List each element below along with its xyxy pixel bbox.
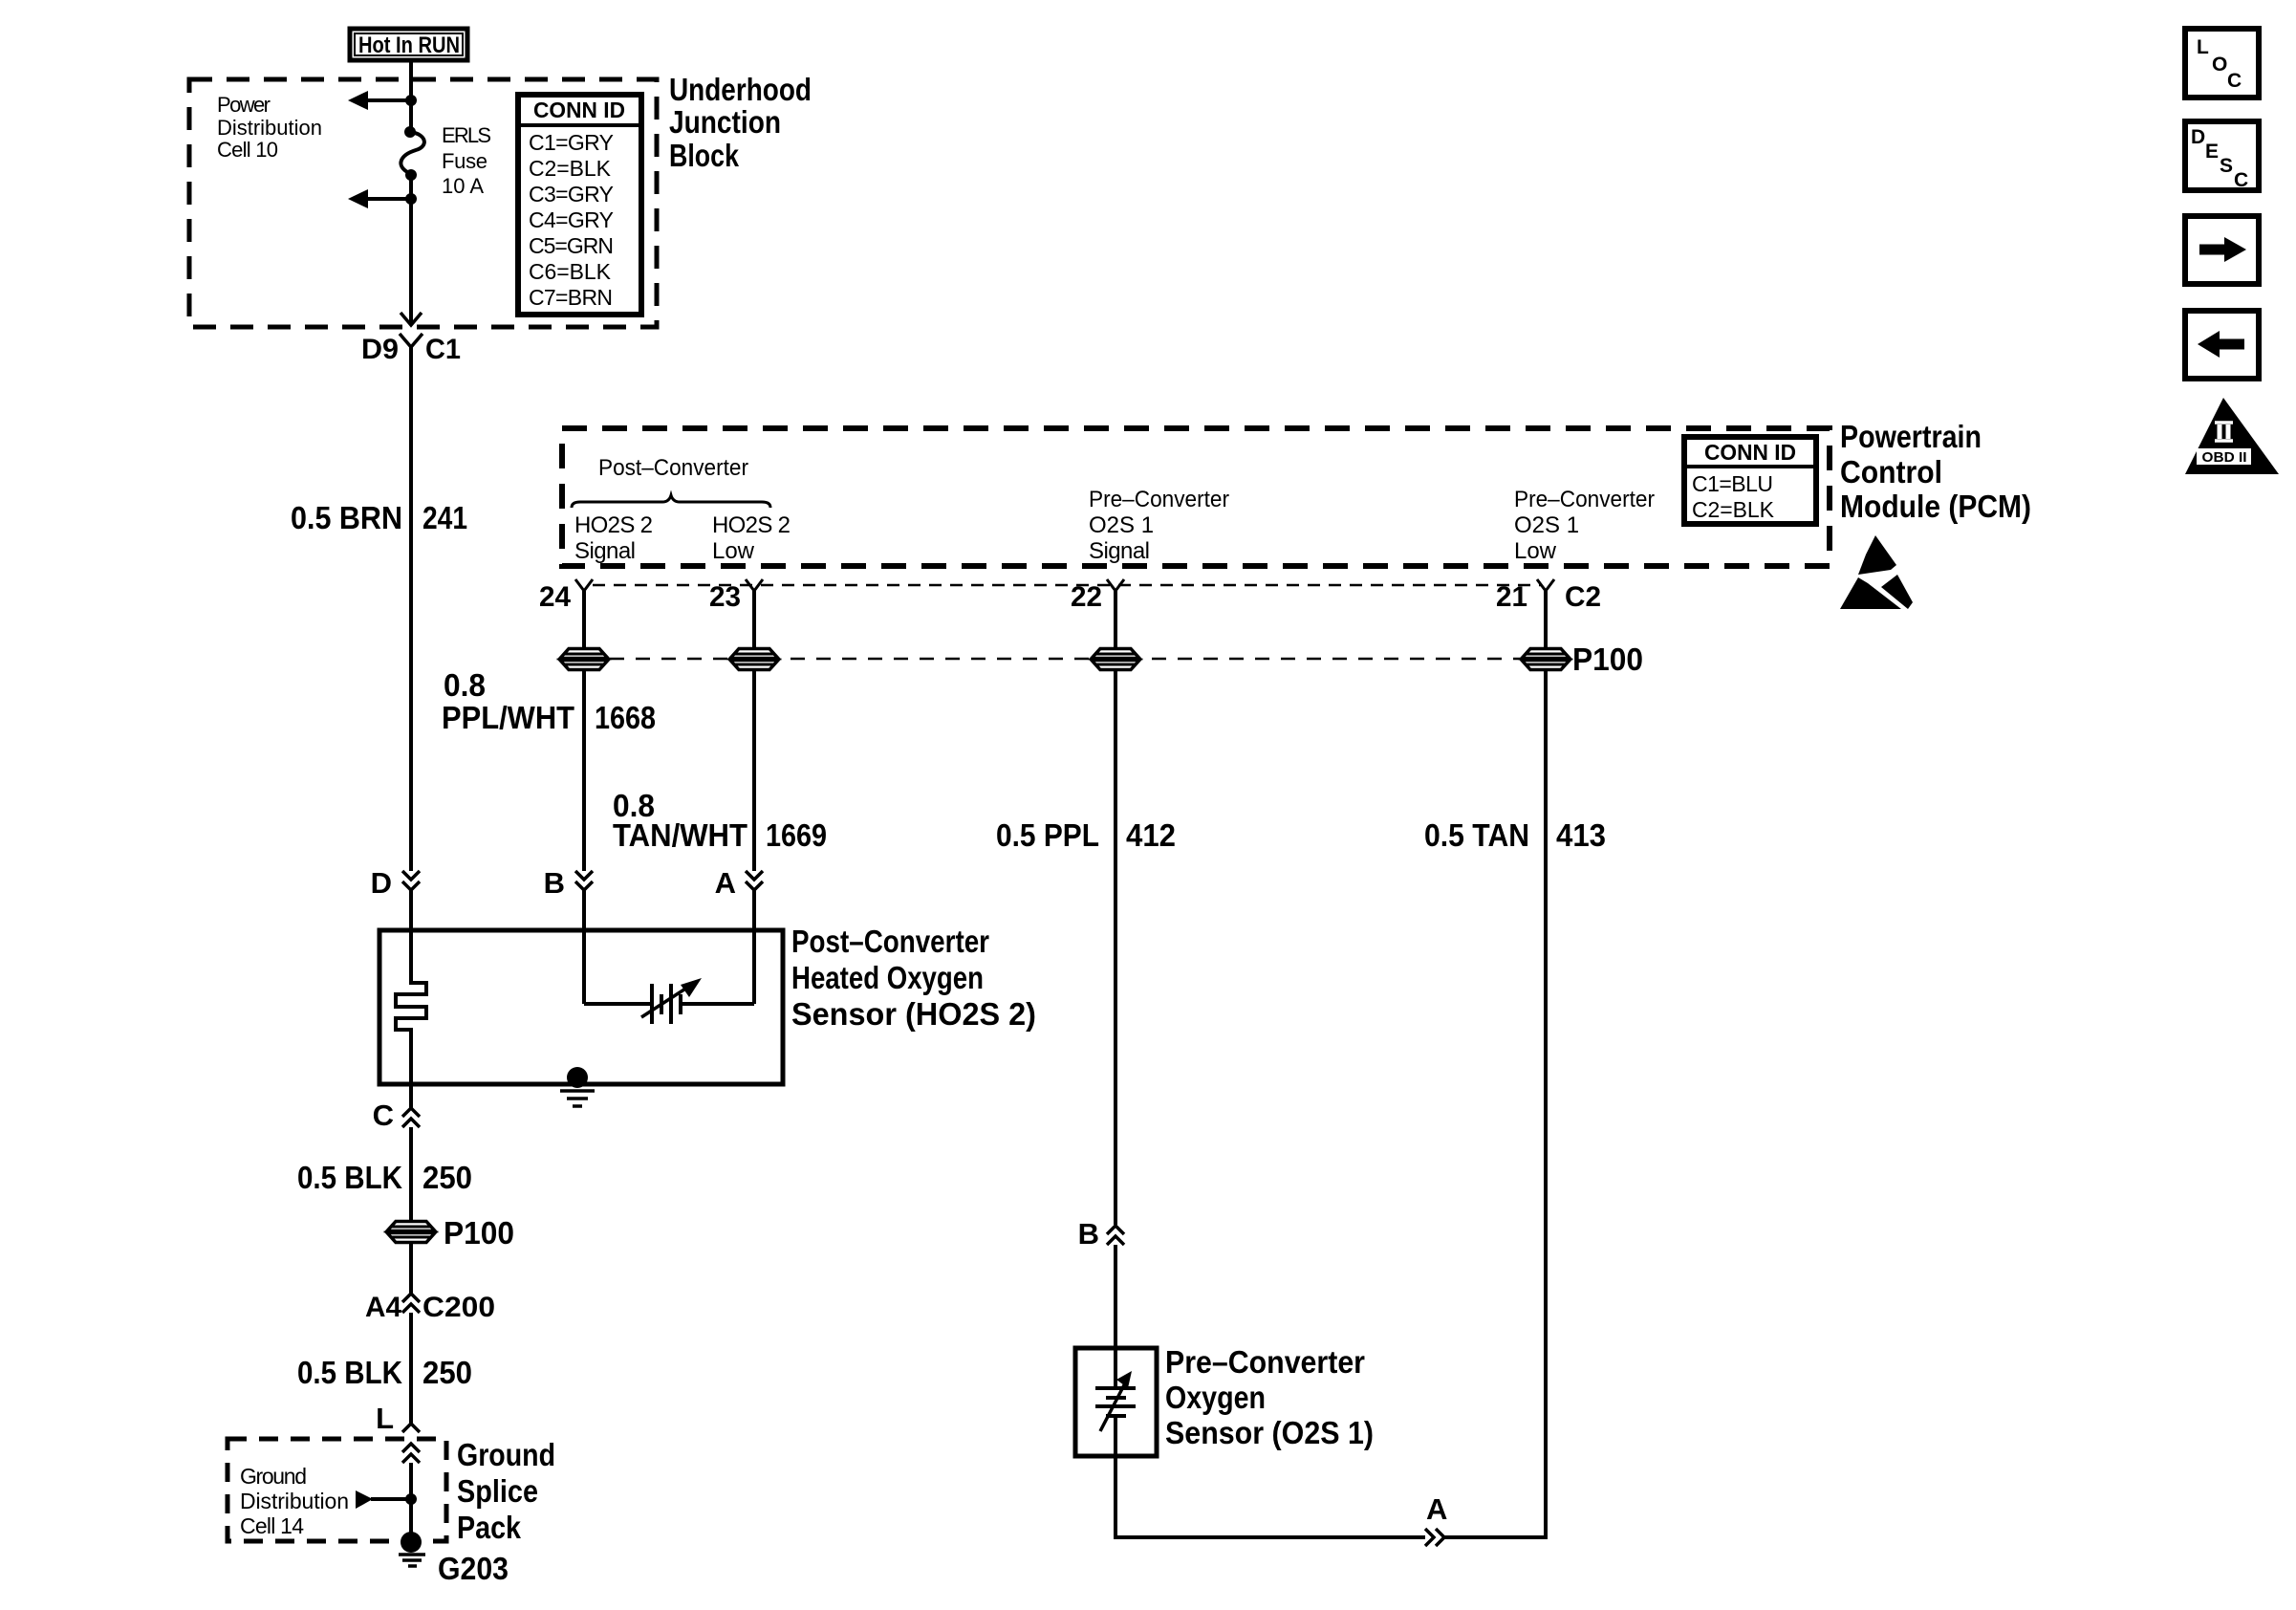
connector chevrons pin C <box>402 1108 420 1127</box>
svg-text:22: 22 <box>1071 581 1102 613</box>
svg-text:C3=GRY: C3=GRY <box>529 182 614 207</box>
svg-text:Junction: Junction <box>669 104 781 140</box>
splice junction dot <box>405 1493 417 1505</box>
fuse ERLS 10A <box>401 126 423 181</box>
Post-Converter Heated Oxygen Sensor HO2S 2 box <box>379 930 783 1084</box>
inline connector on wire 22 <box>1092 649 1139 670</box>
wire D into HO2S2 box <box>409 890 413 930</box>
wire between P100 and C200 <box>409 1242 413 1294</box>
wire label 0.8 TAN/WHT <box>613 788 747 853</box>
svg-text:A: A <box>715 866 736 900</box>
svg-text:C1: C1 <box>425 334 461 365</box>
svg-text:250: 250 <box>422 1160 472 1195</box>
svg-text:A: A <box>1426 1492 1447 1526</box>
wire 22 to connector <box>1114 591 1117 649</box>
wire 23 to connector <box>752 591 756 649</box>
svg-text:C1=GRY: C1=GRY <box>529 130 614 155</box>
connector chevrons pin B HO2S2 <box>575 871 593 890</box>
svg-text:C4=GRY: C4=GRY <box>529 207 614 232</box>
variable sensor element symbol HO2S2 <box>641 978 702 1024</box>
Underhood Junction Block name label <box>669 72 812 173</box>
inline connector P100 left column <box>387 1222 435 1243</box>
svg-text:Low: Low <box>712 538 755 564</box>
svg-text:Post–Converter: Post–Converter <box>791 924 989 959</box>
svg-text:Post–Converter: Post–Converter <box>598 455 748 481</box>
back arrow icon box <box>2185 311 2259 379</box>
svg-text:B: B <box>1078 1217 1099 1251</box>
Ground Distribution Cell 14 label <box>240 1464 349 1538</box>
pin 22 fork <box>1107 579 1124 591</box>
heater element inside HO2S2 <box>396 930 426 1084</box>
svg-text:241: 241 <box>422 500 467 535</box>
Post-Converter Heated Oxygen Sensor (HO2S 2) name label <box>791 924 1036 1032</box>
pin label HO2S 2 Low <box>712 512 791 564</box>
svg-text:Powertrain: Powertrain <box>1840 419 1982 454</box>
svg-text:412: 412 <box>1126 817 1176 853</box>
svg-text:413: 413 <box>1556 817 1606 853</box>
pin 21 fork <box>1537 579 1554 591</box>
svg-text:P100: P100 <box>444 1215 514 1251</box>
svg-text:D: D <box>2191 126 2205 148</box>
svg-text:L: L <box>376 1402 394 1435</box>
svg-text:HO2S 2: HO2S 2 <box>574 512 653 538</box>
Hot In RUN power feed label box <box>350 29 467 60</box>
svg-text:CONN ID: CONN ID <box>1704 440 1796 465</box>
svg-text:Hot In RUN: Hot In RUN <box>358 33 460 58</box>
svg-text:0.5 BRN: 0.5 BRN <box>291 500 402 535</box>
ground G203 dot <box>401 1532 422 1553</box>
wire 24 to connector <box>582 591 586 649</box>
svg-text:Fuse: Fuse <box>442 149 487 173</box>
wire A into HO2S2 box <box>752 890 756 930</box>
svg-text:Low: Low <box>1514 538 1557 564</box>
svg-text:C7=BRN: C7=BRN <box>529 285 613 310</box>
svg-text:PPL/WHT: PPL/WHT <box>442 700 574 735</box>
svg-text:L: L <box>2197 36 2209 58</box>
wire B into HO2S2 box <box>582 890 586 930</box>
Pre-Converter Oxygen Sensor O2S1 box <box>1075 1348 1157 1456</box>
splice wire inside pack <box>409 1463 413 1535</box>
Ground Splice Pack name label <box>457 1437 555 1545</box>
svg-text:Module (PCM): Module (PCM) <box>1840 489 2031 524</box>
inline connector P100 on wire 24 <box>560 649 608 670</box>
svg-text:C2=BLK: C2=BLK <box>1692 497 1775 522</box>
wire from Hot In RUN into junction block <box>409 60 413 131</box>
inline connector on wire 23 <box>730 649 778 670</box>
svg-text:Distribution: Distribution <box>240 1489 349 1513</box>
wire C from HO2S2 to ground chain <box>409 1084 413 1108</box>
svg-text:Underhood: Underhood <box>669 72 812 107</box>
svg-text:Ground: Ground <box>240 1464 307 1489</box>
Powertrain Control Module (PCM) name label <box>1840 419 2031 524</box>
node junction dot lower feed <box>405 193 417 205</box>
svg-text:C5=GRN: C5=GRN <box>529 233 614 258</box>
svg-text:Sensor (HO2S 2): Sensor (HO2S 2) <box>791 996 1036 1032</box>
Ground Splice Pack dashed box <box>227 1439 446 1541</box>
wire 23 below connector <box>752 669 756 871</box>
svg-text:C1=BLU: C1=BLU <box>1692 471 1773 496</box>
PCM C2 connector face dashed line <box>593 584 1542 587</box>
svg-text:10 A: 10 A <box>442 174 484 198</box>
svg-text:Cell 14: Cell 14 <box>240 1513 304 1538</box>
svg-text:21: 21 <box>1496 581 1527 613</box>
pin label Pre-Converter O2S 1 Signal <box>1089 487 1229 564</box>
connector chevrons pin A O2S1 <box>1425 1529 1444 1546</box>
CONN ID table Underhood Junction Block <box>518 95 641 315</box>
node junction dot upper feed <box>405 95 417 106</box>
svg-text:D9: D9 <box>361 334 399 365</box>
sensor element wires inside HO2S2 <box>584 930 754 1004</box>
svg-text:Splice: Splice <box>457 1473 538 1509</box>
svg-text:C200: C200 <box>422 1292 495 1323</box>
Pre-Converter Oxygen Sensor (O2S 1) name label <box>1165 1344 1374 1450</box>
left feed arrow lower <box>348 189 411 208</box>
connector chevrons pin B O2S1 <box>1107 1226 1124 1245</box>
LOC reference icon box <box>2185 29 2259 98</box>
svg-text:1669: 1669 <box>766 817 827 853</box>
svg-text:C2=BLK: C2=BLK <box>529 156 612 181</box>
ground junction dot on HO2S2 case <box>567 1067 588 1088</box>
wire 21 long vertical 0.5 TAN 413 <box>1544 669 1548 1537</box>
pin 24 fork <box>575 579 593 591</box>
wire 0.5 BLK 250 lower <box>409 1313 413 1424</box>
OBD II triangle icon <box>2185 398 2279 474</box>
svg-text:C6=BLK: C6=BLK <box>529 259 612 284</box>
connector chevrons A4 C200 <box>402 1294 420 1313</box>
svg-text:C2: C2 <box>1565 581 1601 613</box>
svg-text:D: D <box>371 866 392 900</box>
svg-text:Ground: Ground <box>457 1437 555 1472</box>
connector chevron pin L <box>402 1424 420 1432</box>
inline connector on wire 21 <box>1522 649 1570 670</box>
svg-text:TAN/WHT: TAN/WHT <box>613 817 747 853</box>
connector fork D9 C1 <box>400 334 422 347</box>
svg-text:0.5 BLK: 0.5 BLK <box>297 1355 402 1390</box>
svg-text:O2S 1: O2S 1 <box>1514 512 1579 538</box>
wire 21 to connector <box>1544 591 1548 649</box>
svg-text:B: B <box>544 866 565 900</box>
svg-text:0.5 TAN: 0.5 TAN <box>1424 817 1529 853</box>
ground symbol G203 <box>399 1555 425 1566</box>
svg-text:Heated Oxygen: Heated Oxygen <box>791 960 984 995</box>
pin label HO2S 2 Signal <box>574 512 653 564</box>
wire 24 below connector <box>582 669 586 871</box>
svg-text:OBD II: OBD II <box>2202 449 2247 466</box>
svg-text:HO2S 2: HO2S 2 <box>712 512 791 538</box>
svg-text:P100: P100 <box>1572 642 1643 677</box>
svg-text:G203: G203 <box>438 1551 509 1586</box>
svg-text:0.5 BLK: 0.5 BLK <box>297 1160 402 1195</box>
wire O2S1 ground return horizontal <box>1114 1535 1425 1539</box>
svg-text:O2S 1: O2S 1 <box>1089 512 1154 538</box>
case ground symbol HO2S2 <box>560 1091 595 1106</box>
wire 0.5 BLK 250 upper <box>409 1127 413 1223</box>
CONN ID table PCM <box>1684 437 1816 524</box>
connector chevrons pin A HO2S2 <box>746 871 763 890</box>
svg-text:Block: Block <box>669 138 740 173</box>
P100 pass-through dashed line <box>584 658 1522 661</box>
svg-text:C: C <box>2227 70 2242 92</box>
ground distribution arrow <box>356 1490 373 1509</box>
ERLS Fuse 10 A label <box>442 123 491 198</box>
svg-text:Pre–Converter: Pre–Converter <box>1165 1344 1365 1380</box>
svg-text:24: 24 <box>539 581 571 613</box>
wire 22 long vertical 0.5 PPL 412 <box>1114 669 1117 1225</box>
Power Distribution Cell 10 label <box>217 93 322 162</box>
svg-text:0.5 PPL: 0.5 PPL <box>996 817 1099 853</box>
wire label 0.8 PPL/WHT <box>442 667 574 735</box>
Underhood Junction Block dashed box <box>189 79 657 327</box>
svg-text:O: O <box>2212 54 2227 76</box>
svg-text:Signal: Signal <box>574 538 636 564</box>
svg-text:ERLS: ERLS <box>442 123 491 147</box>
wire B into O2S1 box <box>1114 1245 1117 1348</box>
svg-text:C: C <box>373 1099 394 1132</box>
svg-text:Pre–Converter: Pre–Converter <box>1089 487 1229 512</box>
svg-text:Sensor (O2S 1): Sensor (O2S 1) <box>1165 1415 1374 1450</box>
svg-text:23: 23 <box>709 581 741 613</box>
pin label Pre-Converter O2S 1 Low <box>1514 487 1655 564</box>
wire 0.5 BRN 241 vertical <box>409 347 413 871</box>
connector chevrons pin D <box>402 871 420 890</box>
svg-text:Distribution: Distribution <box>217 116 322 140</box>
ESD sensitive device symbol <box>1840 535 1913 609</box>
svg-text:S: S <box>2220 155 2233 177</box>
svg-text:250: 250 <box>422 1355 472 1390</box>
svg-text:Pre–Converter: Pre–Converter <box>1514 487 1655 512</box>
svg-text:CONN ID: CONN ID <box>533 98 625 122</box>
Powertrain Control Module dashed box <box>562 428 1830 566</box>
svg-text:Control: Control <box>1840 454 1942 490</box>
wire fuse to lower junction <box>409 175 413 323</box>
svg-text:C: C <box>2234 169 2248 191</box>
svg-text:A4: A4 <box>365 1292 401 1323</box>
svg-text:Signal: Signal <box>1089 538 1150 564</box>
svg-text:Pack: Pack <box>457 1510 522 1545</box>
pin 23 fork <box>746 579 763 591</box>
ground distribution tap wire <box>371 1497 411 1501</box>
DESC reference icon box <box>2185 121 2259 191</box>
svg-text:Oxygen: Oxygen <box>1165 1380 1266 1415</box>
open arrowhead at junction block exit <box>401 313 422 325</box>
svg-text:1668: 1668 <box>595 700 656 735</box>
left feed arrow upper <box>348 91 411 110</box>
connector chevrons into splice pack <box>402 1444 420 1463</box>
svg-text:E: E <box>2205 141 2219 163</box>
wire chevron to TAN wire corner <box>1444 1535 1548 1539</box>
wire O2S1 ground return down <box>1114 1456 1117 1535</box>
svg-text:Cell 10: Cell 10 <box>217 138 278 162</box>
svg-text:0.8: 0.8 <box>444 667 486 703</box>
forward arrow icon box <box>2185 216 2259 284</box>
variable sensor element symbol O2S1 <box>1095 1348 1136 1456</box>
svg-text:Power: Power <box>217 93 271 117</box>
brace under Post-Converter <box>572 495 770 508</box>
